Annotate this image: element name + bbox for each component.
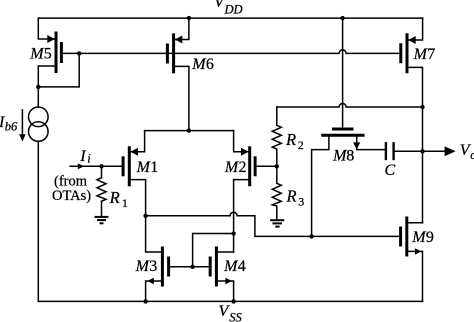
resistor R1 (97, 166, 106, 216)
ground below R3 (270, 220, 284, 226)
svg-text:1: 1 (122, 196, 128, 210)
label R3 (286, 186, 305, 208)
svg-text:o: o (470, 148, 474, 162)
node M6 drain at diff pair (187, 128, 191, 132)
svg-text:R: R (109, 188, 120, 207)
node output (420, 149, 424, 153)
node M3 source at VSS (143, 299, 147, 303)
svg-text:7: 7 (427, 46, 435, 63)
node input R1 junction (99, 164, 103, 168)
svg-text:3: 3 (149, 258, 157, 275)
svg-text:R: R (286, 186, 297, 205)
label M9 (411, 229, 434, 246)
svg-text:R: R (285, 130, 296, 149)
arrow Ib6 direction (19, 110, 26, 142)
transistor M1 (123, 131, 146, 216)
svg-text:M: M (411, 229, 427, 246)
transistor M5 (38, 18, 61, 87)
transistor M6 (167, 18, 189, 131)
wire R2 top to M7 drain (277, 104, 423, 107)
svg-text:C: C (385, 162, 396, 179)
svg-text:M: M (223, 258, 239, 275)
label VDD (214, 0, 243, 17)
svg-text:M: M (136, 159, 152, 176)
svg-text:M: M (135, 258, 151, 275)
svg-text:I: I (79, 148, 86, 165)
transistor M3 (146, 216, 209, 302)
transistor M7 (401, 18, 423, 223)
svg-text:1: 1 (150, 159, 158, 176)
svg-text:OTAs): OTAs) (52, 188, 91, 204)
svg-text:6: 6 (206, 56, 214, 73)
arrow input (78, 163, 85, 169)
wire M3 M4 gates to M4 drain (193, 234, 234, 267)
label M4 (223, 258, 246, 275)
resistor R3 (272, 166, 281, 219)
label R1 (109, 188, 128, 210)
label Vo (460, 142, 474, 162)
label M6 (191, 56, 214, 73)
svg-text:2: 2 (239, 159, 247, 176)
ground below R1 (95, 217, 109, 223)
arrow output (445, 146, 456, 156)
node M4 drain diode junction (231, 231, 235, 235)
label Ib6 (0, 114, 18, 134)
capacitor C (386, 142, 445, 160)
label M1 (136, 159, 159, 176)
label VSS (219, 303, 243, 322)
label M8 (332, 148, 354, 165)
transistor M9 (401, 217, 423, 302)
wire M1 M2 common source line (145, 130, 234, 132)
svg-text:4: 4 (238, 258, 246, 275)
label M3 (135, 258, 158, 275)
svg-text:8: 8 (346, 148, 354, 165)
node M5 drain junction (36, 85, 40, 89)
svg-text:M: M (224, 159, 240, 176)
svg-text:i: i (87, 152, 91, 166)
svg-text:M: M (191, 56, 207, 73)
svg-text:3: 3 (298, 194, 304, 208)
VSS rail (38, 300, 422, 302)
label C (385, 162, 396, 179)
node M6 source at VDD (187, 16, 191, 20)
node M1 drain M3 drain junction (143, 214, 147, 218)
node R2 line at M7 drain (420, 105, 424, 109)
resistor R2 (272, 107, 281, 166)
current source Ib6 (29, 87, 49, 302)
VDD rail (38, 17, 422, 19)
wire M5 diode connection (38, 53, 79, 87)
svg-text:5: 5 (44, 46, 52, 63)
label Ii (79, 148, 91, 166)
svg-text:2: 2 (298, 138, 304, 152)
node M8 drain at M9 gate line (309, 234, 313, 238)
transistor M4 (210, 247, 233, 302)
label M7 (413, 46, 436, 63)
node M3 M4 gate junction (190, 265, 194, 269)
wire first stage output to M9 gate (146, 212, 400, 236)
svg-text:b6: b6 (5, 120, 18, 134)
node M5 gate junction (77, 51, 81, 55)
wire M5 gate to M7 gate (through M6 gate) (61, 50, 399, 53)
svg-text:DD: DD (224, 3, 243, 17)
label M5 (29, 46, 52, 63)
svg-text:SS: SS (229, 310, 242, 322)
transistor M2 (234, 131, 277, 252)
svg-text:M: M (413, 46, 429, 63)
label M2 (224, 159, 247, 176)
node M2 gate R2 R3 junction (275, 164, 279, 168)
node M4 source at VSS (231, 299, 235, 303)
node M8 gate at VDD (340, 16, 344, 20)
label from OTAs (52, 174, 91, 204)
transistor M8 (312, 18, 385, 236)
wire input Ii (70, 165, 122, 167)
svg-text:9: 9 (426, 229, 434, 246)
svg-text:M: M (29, 46, 45, 63)
label R2 (285, 130, 304, 152)
